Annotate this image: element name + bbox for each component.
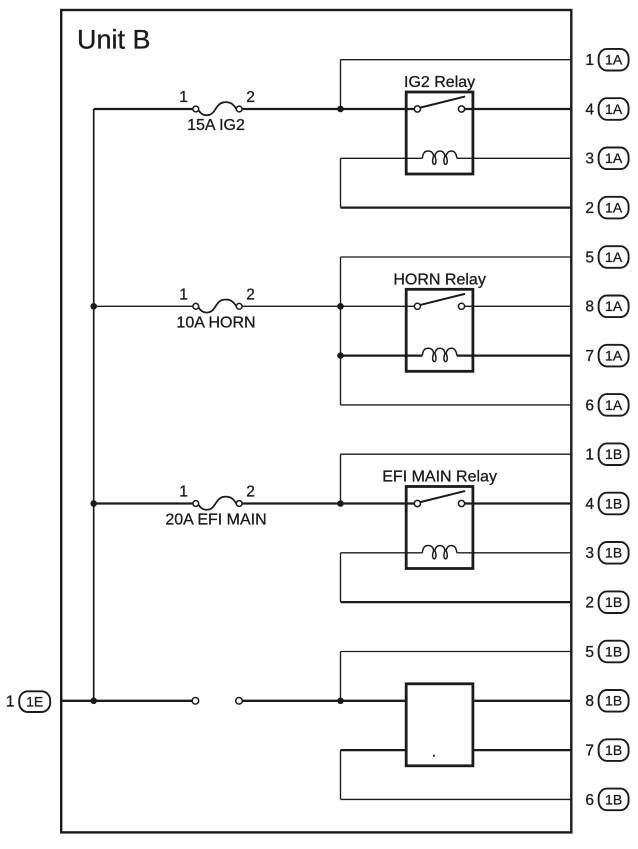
- fuse terminal 1: [193, 501, 199, 507]
- svg-text:3: 3: [585, 151, 594, 168]
- relay block enclosure Unit B: [61, 10, 571, 832]
- wire block4 stub top-to-main: [340, 652, 342, 701]
- wire block3 coil row left: [341, 552, 423, 554]
- wire block4 bottom row to pin: [341, 798, 572, 800]
- fuse 10A HORN element: [199, 299, 237, 312]
- fuse 20A EFI MAIN element: [199, 497, 237, 510]
- svg-text:1A: 1A: [605, 348, 623, 364]
- switch contact right block1: [458, 106, 464, 112]
- fuse terminal 1: [193, 106, 199, 112]
- wire block2 coil row right to pin: [457, 354, 571, 356]
- svg-text:8: 8: [585, 693, 594, 710]
- svg-text:1: 1: [179, 484, 188, 501]
- svg-text:1A: 1A: [605, 249, 623, 265]
- fuse terminal 2: [236, 303, 242, 309]
- open connector terminal right: [236, 698, 243, 705]
- svg-text:2: 2: [246, 286, 255, 303]
- switch blade block3: [421, 491, 465, 502]
- svg-text:1A: 1A: [605, 298, 623, 314]
- switch contact left block3: [414, 500, 420, 506]
- svg-text:1: 1: [6, 693, 15, 710]
- wire block4 coil row right to pin: [473, 749, 571, 751]
- svg-text:3: 3: [585, 545, 594, 562]
- svg-text:6: 6: [585, 792, 594, 809]
- svg-text:1B: 1B: [605, 495, 622, 511]
- wire block3 switch output to pin: [465, 502, 571, 504]
- svg-text:1B: 1B: [605, 594, 622, 610]
- wire block3 fuse output to relay: [242, 502, 414, 504]
- svg-text:1A: 1A: [605, 150, 623, 166]
- wire block4 coil row left: [341, 749, 407, 751]
- mark inside module box: [433, 755, 435, 757]
- junction block4 main at stub: [337, 698, 344, 705]
- svg-text:6: 6: [585, 397, 594, 414]
- wire block2 main feed from bus: [94, 305, 193, 307]
- wire block1 switch output to pin: [465, 108, 571, 110]
- wire block1 stub top-to-main: [340, 60, 342, 109]
- svg-text:1E: 1E: [26, 693, 43, 709]
- wire block3 top row to pin: [341, 453, 572, 455]
- relay box block1: [406, 92, 473, 174]
- wire block1 bottom row to pin: [341, 206, 572, 208]
- svg-text:1: 1: [179, 286, 188, 303]
- wire block3 stub top-to-main: [340, 454, 342, 503]
- wire block1 coil row right to pin: [457, 157, 571, 159]
- fuse terminal 2: [236, 106, 242, 112]
- wire block1 coil row left: [341, 157, 423, 159]
- wire block2 coil row left: [341, 354, 423, 356]
- svg-text:1B: 1B: [605, 791, 622, 807]
- wire block3 bracket vertical: [340, 553, 342, 602]
- wire block4 bracket vertical: [340, 750, 342, 799]
- wire block1 fuse output to relay: [242, 108, 414, 110]
- fuse terminal 1: [193, 303, 199, 309]
- svg-text:1B: 1B: [605, 446, 622, 462]
- svg-text:1A: 1A: [605, 200, 623, 216]
- switch contact left block2: [414, 303, 420, 309]
- switch contact right block3: [458, 500, 464, 506]
- svg-text:1: 1: [585, 447, 594, 464]
- svg-text:1B: 1B: [605, 643, 622, 659]
- junction block1 main at stub: [337, 106, 344, 113]
- svg-text:1: 1: [585, 52, 594, 69]
- junction block2 coil tap: [337, 352, 344, 359]
- svg-text:1A: 1A: [605, 52, 623, 68]
- relay box block2: [406, 289, 473, 371]
- relay coil block3: [422, 546, 457, 559]
- svg-text:1: 1: [179, 89, 188, 106]
- wire block4 main to module: [243, 700, 407, 702]
- wire block1 top row to pin: [341, 59, 572, 61]
- junction block3 bus tap: [90, 500, 97, 507]
- connector oval 1E: [19, 691, 50, 712]
- wire block4 module output to pin: [473, 700, 571, 702]
- svg-text:2: 2: [246, 89, 255, 106]
- svg-text:2: 2: [585, 200, 594, 217]
- svg-text:7: 7: [585, 743, 594, 760]
- svg-text:1A: 1A: [605, 101, 623, 117]
- svg-text:15A IG2: 15A IG2: [187, 117, 245, 134]
- relay box block4: [406, 684, 473, 766]
- open connector terminal left: [192, 698, 199, 705]
- svg-text:IG2 Relay: IG2 Relay: [404, 74, 475, 91]
- wire block3 coil row right to pin: [457, 552, 571, 554]
- svg-text:HORN Relay: HORN Relay: [393, 271, 485, 288]
- svg-text:4: 4: [585, 101, 594, 118]
- svg-text:7: 7: [585, 348, 594, 365]
- relay coil block2: [422, 348, 457, 361]
- wire block1 main feed from bus: [94, 108, 193, 110]
- svg-text:1B: 1B: [605, 693, 622, 709]
- switch contact right block2: [458, 303, 464, 309]
- svg-text:8: 8: [585, 299, 594, 316]
- junction block2 bus tap: [90, 303, 97, 310]
- junction block3 main at stub: [337, 500, 344, 507]
- wire block2 switch output to pin: [465, 305, 571, 307]
- svg-text:1A: 1A: [605, 397, 623, 413]
- wire left power bus vertical: [93, 109, 95, 701]
- svg-text:4: 4: [585, 496, 594, 513]
- switch contact left block1: [414, 106, 420, 112]
- wire block1 bracket vertical: [340, 158, 342, 207]
- fuse 15A IG2 element: [199, 102, 237, 115]
- svg-text:Unit B: Unit B: [77, 25, 151, 55]
- wire block4 top row to pin: [341, 651, 572, 653]
- fuse terminal 2: [236, 501, 242, 507]
- svg-text:EFI MAIN Relay: EFI MAIN Relay: [382, 469, 497, 486]
- relay box block3: [406, 487, 473, 569]
- wire block2 fuse output to relay: [242, 305, 414, 307]
- svg-text:10A HORN: 10A HORN: [176, 314, 255, 331]
- svg-text:2: 2: [246, 484, 255, 501]
- wire block2 bottom row to pin: [341, 404, 572, 406]
- svg-text:5: 5: [585, 644, 594, 661]
- wire block3 main feed from bus: [94, 502, 193, 504]
- svg-text:20A EFI MAIN: 20A EFI MAIN: [165, 512, 266, 529]
- svg-text:1B: 1B: [605, 545, 622, 561]
- wire block4 main feed from pin 1E: [61, 700, 192, 702]
- wire block2 top row to pin: [341, 256, 572, 258]
- wire block3 bottom row to pin: [341, 601, 572, 603]
- svg-text:5: 5: [585, 249, 594, 266]
- relay coil block1: [422, 151, 457, 164]
- junction block2 main at stub: [337, 303, 344, 310]
- junction block4 bus tap: [90, 698, 97, 705]
- wire block2 vertical tie: [340, 257, 342, 405]
- svg-text:1B: 1B: [605, 742, 622, 758]
- switch blade block1: [421, 97, 465, 108]
- switch blade block2: [421, 294, 465, 305]
- svg-text:2: 2: [585, 595, 594, 612]
